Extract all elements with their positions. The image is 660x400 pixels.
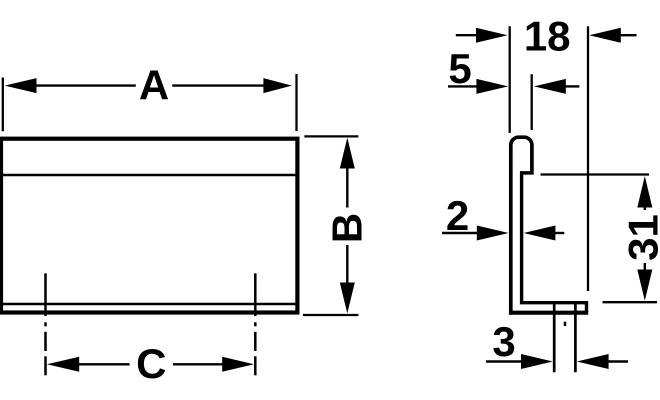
front view outline bbox=[1, 139, 297, 313]
hole edge line left bbox=[553, 303, 556, 373]
svg-text:C: C bbox=[136, 340, 166, 387]
front view top groove line bbox=[3, 174, 296, 177]
dimension 31 bbox=[541, 175, 660, 303]
svg-text:B: B bbox=[323, 213, 370, 243]
hole edge line right bbox=[574, 303, 577, 373]
svg-text:31: 31 bbox=[619, 214, 660, 261]
svg-text:18: 18 bbox=[524, 12, 571, 59]
hole centerline dot bbox=[564, 322, 567, 326]
svg-text:5: 5 bbox=[448, 45, 471, 92]
centerline right hole bbox=[254, 273, 257, 375]
centerline left hole bbox=[44, 273, 47, 375]
dimension 2 bbox=[442, 192, 564, 241]
svg-text:3: 3 bbox=[492, 318, 515, 365]
dimension C bbox=[47, 340, 254, 387]
svg-text:A: A bbox=[139, 61, 169, 108]
dimension B bbox=[303, 136, 370, 315]
dimension A bbox=[3, 61, 297, 131]
dimension 3 bbox=[486, 318, 628, 369]
dimension 5 bbox=[448, 45, 579, 130]
svg-text:2: 2 bbox=[446, 192, 469, 239]
front view bottom groove line bbox=[3, 303, 296, 306]
side profile outline bbox=[509, 137, 588, 314]
dimension 18 bbox=[456, 12, 637, 291]
